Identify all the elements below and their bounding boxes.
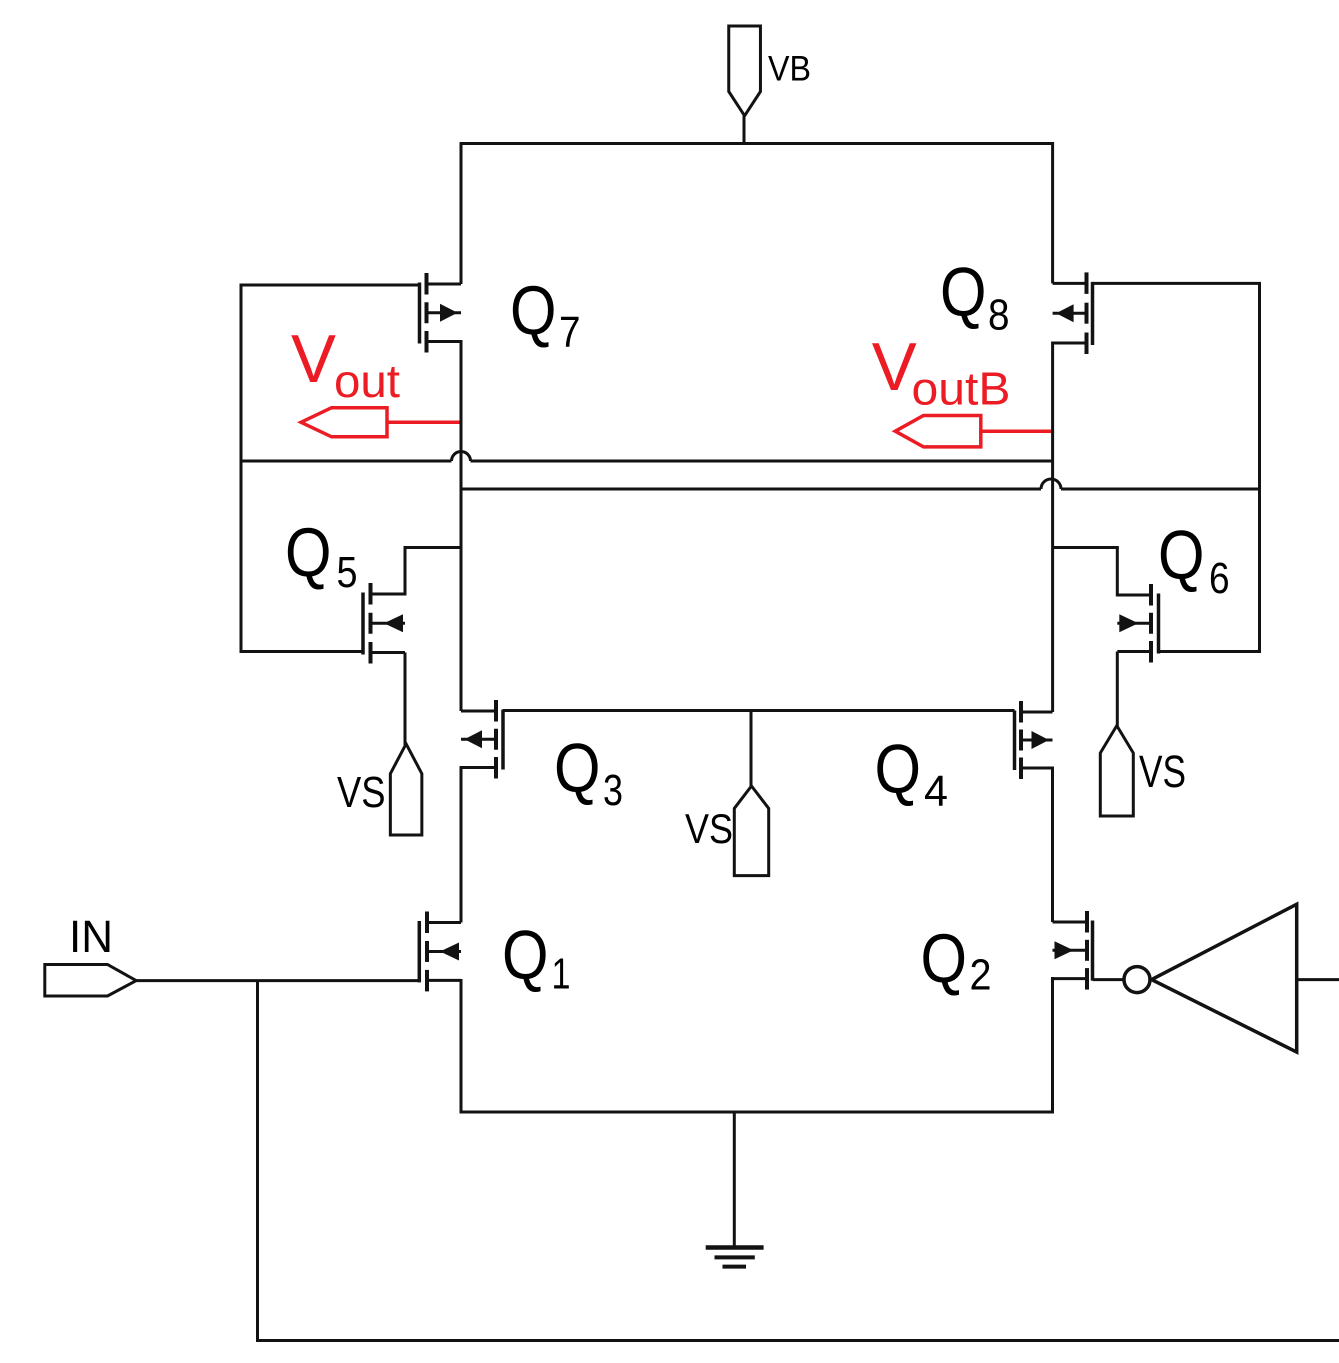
svg-text:Q: Q: [285, 514, 332, 592]
wire Q3-Q4 gate rail: [503, 709, 1015, 712]
wire IN to Q1 gate: [136, 979, 419, 982]
label Q6: [1158, 516, 1230, 603]
wire ground stem: [733, 1112, 736, 1246]
transistor Q1: [419, 912, 461, 992]
wire Q6 gate (right box bottom edge): [1159, 650, 1260, 653]
wire Q5 source stem: [404, 653, 407, 746]
label Q8: [940, 253, 1010, 340]
wire VS center stem: [750, 711, 753, 789]
wire left box left edge: [240, 284, 243, 654]
terminal VS center: [734, 786, 768, 876]
svg-text:Q: Q: [554, 729, 601, 807]
svg-text:VS: VS: [685, 805, 733, 852]
wire Q7 gate (left box top edge): [240, 284, 420, 287]
label VS right: [1139, 746, 1186, 797]
svg-text:Q: Q: [510, 272, 557, 350]
svg-text:4: 4: [924, 767, 948, 816]
svg-text:VS: VS: [337, 768, 386, 817]
svg-text:2: 2: [970, 951, 992, 1000]
svg-text:3: 3: [603, 766, 623, 815]
wire VoutB lead: [981, 429, 1054, 433]
terminal VB: [729, 26, 761, 144]
label Q7: [510, 272, 581, 357]
svg-text:out: out: [334, 355, 400, 407]
svg-text:Q: Q: [921, 920, 968, 998]
wire Vout lead: [387, 421, 463, 425]
wire inverter output: [1297, 978, 1339, 981]
transistor Q8: [1053, 272, 1093, 354]
label Q1: [502, 916, 571, 999]
svg-text:7: 7: [559, 308, 581, 357]
wire left rail lower segment: [460, 766, 463, 923]
label Q2: [921, 920, 992, 1000]
wire source rail bottom: [461, 1111, 1053, 1114]
wire Q8 gate (right box top edge): [1093, 282, 1262, 285]
svg-text:V: V: [291, 321, 337, 397]
wire node VoutB to left box (upper cross line): [241, 452, 1053, 461]
label Vout: [291, 321, 400, 407]
svg-text:IN: IN: [69, 911, 113, 962]
svg-text:Q: Q: [940, 253, 987, 331]
label Q4: [875, 730, 949, 816]
wire Q5 gate (left box bottom edge): [241, 650, 363, 653]
svg-text:Q: Q: [502, 916, 549, 994]
wire right rail middle segment: [1051, 342, 1054, 713]
svg-text:1: 1: [552, 950, 571, 999]
inverter U1 bubble: [1124, 967, 1150, 993]
label VoutB: [872, 329, 1011, 414]
wire Q6 source stem: [1116, 652, 1119, 728]
inverter U1: [1152, 904, 1297, 1052]
transistor Q2: [1053, 911, 1093, 990]
label Q5: [285, 514, 358, 598]
terminal VoutB arrow: [895, 416, 981, 447]
wire node Vout to right box (lower cross line): [461, 479, 1260, 489]
wire Q6 drain jog: [1053, 548, 1119, 597]
label VS center: [685, 805, 733, 852]
node IN junction: [256, 981, 259, 1342]
wire feedback bottom: [256, 1339, 1339, 1342]
svg-text:8: 8: [988, 291, 1010, 340]
label VB: [768, 49, 811, 88]
transistor Q4: [1015, 701, 1053, 779]
transistor Q3: [461, 700, 503, 779]
wire top rail: [460, 142, 1055, 145]
svg-text:VS: VS: [1139, 746, 1186, 797]
wire Q5 drain jog: [404, 548, 462, 596]
transistor Q7: [420, 273, 462, 353]
terminal IN: [45, 965, 136, 997]
wire left rail bottom segment: [460, 979, 463, 1114]
wire right rail lower segment: [1051, 767, 1054, 923]
svg-text:VB: VB: [768, 49, 811, 88]
ground: [706, 1248, 764, 1267]
label VS left: [337, 768, 386, 817]
wire Q2 gate to inverter: [1093, 978, 1125, 981]
wire right rail upper segment: [1051, 142, 1054, 283]
wire right box right edge: [1258, 282, 1261, 653]
transistor Q6: [1117, 584, 1158, 663]
wire left rail upper segment: [460, 142, 463, 284]
svg-text:Q: Q: [1158, 516, 1205, 594]
terminal VS right: [1100, 726, 1133, 816]
transistor Q5: [363, 583, 405, 664]
wire right rail bottom segment: [1051, 977, 1054, 1114]
svg-text:Q: Q: [875, 730, 922, 808]
terminal VS left: [390, 744, 422, 835]
label Q3: [554, 729, 623, 815]
svg-text:6: 6: [1209, 554, 1230, 603]
svg-text:5: 5: [337, 548, 358, 597]
wire left rail middle segment: [460, 340, 463, 711]
label IN: [69, 911, 113, 962]
svg-text:outB: outB: [912, 363, 1011, 415]
terminal Vout arrow: [301, 408, 387, 437]
